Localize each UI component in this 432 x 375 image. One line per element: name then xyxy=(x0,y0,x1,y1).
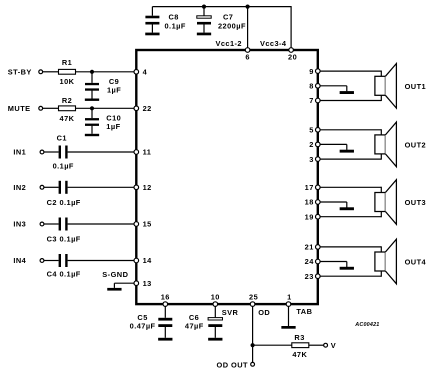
svg-text:47K: 47K xyxy=(292,350,307,359)
ground C8 xyxy=(145,33,159,36)
svg-text:AC00421: AC00421 xyxy=(354,322,379,328)
svg-text:6: 6 xyxy=(245,52,250,61)
pin 2 xyxy=(309,140,320,149)
resistor R1 xyxy=(59,69,76,74)
pin 7 xyxy=(309,96,320,105)
wire pin 17 to speaker top xyxy=(318,187,382,193)
ground C10 xyxy=(85,134,99,136)
wire ST-BY to R1 xyxy=(43,71,59,73)
wire IN4 to C4 xyxy=(44,260,59,262)
node IN1 terminal xyxy=(13,148,43,157)
svg-text:V: V xyxy=(331,341,336,350)
svg-text:C2 0.1µF: C2 0.1µF xyxy=(47,198,81,207)
pin 25 OD xyxy=(249,293,270,318)
svg-text:OUT1: OUT1 xyxy=(405,82,427,91)
svg-text:47µF: 47µF xyxy=(185,321,204,330)
svg-text:9: 9 xyxy=(309,67,314,76)
wire pin 25 to OD junction xyxy=(252,304,254,345)
wire IN1 to C1 xyxy=(44,151,59,153)
svg-text:C8: C8 xyxy=(169,13,179,22)
wire R1 to pin 4 xyxy=(76,71,137,73)
svg-text:0.1µF: 0.1µF xyxy=(165,22,186,31)
value C1 0.1µF xyxy=(53,162,74,171)
pin 9 xyxy=(309,67,320,76)
svg-text:22: 22 xyxy=(143,104,152,113)
svg-text:ST-BY: ST-BY xyxy=(8,67,32,76)
wire C4 to pin 14 xyxy=(68,260,137,262)
label R1 xyxy=(62,58,72,67)
ground speaker OUT4 xyxy=(340,267,354,270)
svg-text:TAB: TAB xyxy=(296,307,312,316)
svg-text:4: 4 xyxy=(143,67,148,76)
resistor R3 xyxy=(292,343,309,348)
svg-text:R2: R2 xyxy=(62,96,72,105)
ground C6 xyxy=(208,338,222,341)
svg-text:14: 14 xyxy=(143,256,153,265)
svg-text:16: 16 xyxy=(161,293,170,302)
svg-text:10: 10 xyxy=(211,293,220,302)
ground speaker OUT2 xyxy=(340,150,354,153)
pin 20 xyxy=(288,48,297,62)
pin 23 xyxy=(305,272,320,281)
net label Vcc3-4 xyxy=(260,39,287,48)
pin 15 xyxy=(134,220,152,229)
wire R3 to V terminal xyxy=(309,344,324,346)
wire pin 5 to speaker top xyxy=(318,129,382,135)
op-amp IC U1 (quad power amplifier) xyxy=(136,50,317,304)
node MUTE terminal xyxy=(8,104,43,113)
svg-text:7: 7 xyxy=(309,96,314,105)
wire pin 3 to speaker bottom xyxy=(318,154,382,160)
svg-text:SVR: SVR xyxy=(222,308,239,317)
junction dot C7 top xyxy=(202,5,206,9)
node IN3 terminal xyxy=(13,220,43,229)
svg-text:17: 17 xyxy=(305,183,314,192)
pin 8 xyxy=(309,82,320,91)
svg-text:13: 13 xyxy=(143,279,152,288)
capacitor C10 xyxy=(85,108,99,134)
label C9 xyxy=(109,77,119,86)
node V terminal xyxy=(324,341,336,350)
label C6 xyxy=(189,313,199,322)
wire pin 1 to ground xyxy=(288,304,290,326)
wire IN3 to C3 xyxy=(44,223,59,225)
pin 1 TAB xyxy=(286,293,312,317)
wire pin 23 to speaker bottom xyxy=(318,271,382,277)
svg-text:3: 3 xyxy=(309,155,314,164)
pin 18 xyxy=(305,198,320,207)
label C10 xyxy=(106,114,121,123)
pin 21 xyxy=(305,243,320,252)
ground TAB xyxy=(281,326,295,329)
value C3 0.1µF xyxy=(47,235,81,244)
wire pin 13 to signal ground xyxy=(114,283,136,288)
wire Vcc1-2 drop to pin 6 xyxy=(247,7,249,50)
wire C2 to pin 12 xyxy=(68,186,137,188)
ground S-GND xyxy=(107,288,121,291)
value C8 0.1µF xyxy=(165,22,186,31)
svg-text:5: 5 xyxy=(309,126,314,135)
svg-text:MUTE: MUTE xyxy=(8,104,31,113)
label OUT1 xyxy=(405,82,427,91)
capacitor C7 (electrolytic) xyxy=(197,7,211,33)
pin 13 xyxy=(134,279,152,288)
wire pin 9 to speaker top xyxy=(318,71,382,77)
ground speaker OUT3 xyxy=(340,207,354,210)
node IN2 terminal xyxy=(13,183,43,192)
svg-text:2: 2 xyxy=(309,140,314,149)
junction dot OD xyxy=(251,343,255,347)
value C6 47µF xyxy=(185,321,204,330)
svg-text:0.1µF: 0.1µF xyxy=(53,162,74,171)
value C2 0.1µF xyxy=(47,198,81,207)
value C10 1µF xyxy=(106,122,120,131)
wire top supply rail xyxy=(152,6,291,8)
svg-text:12: 12 xyxy=(143,183,152,192)
speaker OUT4 xyxy=(375,239,397,284)
pin 17 xyxy=(305,183,320,192)
pin 6 xyxy=(245,48,250,62)
pin 12 xyxy=(134,183,152,192)
value C9 1µF xyxy=(107,86,121,95)
wire IN2 to C2 xyxy=(44,186,59,188)
speaker OUT3 xyxy=(375,180,397,225)
value C7 2200µF xyxy=(218,22,246,31)
label C8 xyxy=(169,13,179,22)
pin 10 SVR xyxy=(211,293,239,318)
svg-text:25: 25 xyxy=(249,293,258,302)
value R2 47K xyxy=(60,114,75,123)
svg-text:R3: R3 xyxy=(294,333,304,342)
pin 14 xyxy=(134,256,152,265)
node IN4 terminal xyxy=(13,256,43,265)
figure code AC00421 xyxy=(354,322,379,328)
ground C9 xyxy=(85,99,99,101)
junction dot ST-BY/C9 xyxy=(90,70,94,74)
svg-text:1µF: 1µF xyxy=(106,122,120,131)
svg-text:OUT4: OUT4 xyxy=(405,258,427,267)
capacitor C9 xyxy=(85,72,99,99)
svg-text:S-GND: S-GND xyxy=(102,270,128,279)
svg-text:C1: C1 xyxy=(57,134,67,143)
pin 11 xyxy=(134,148,151,157)
svg-text:OD OUT: OD OUT xyxy=(217,360,248,369)
svg-text:2200µF: 2200µF xyxy=(218,22,246,31)
svg-text:23: 23 xyxy=(305,272,314,281)
wire pin 19 to speaker bottom xyxy=(318,212,382,218)
pin 16 xyxy=(161,293,170,307)
wire pin 8 to ground xyxy=(318,86,347,92)
wire pin 2 to ground xyxy=(318,144,347,150)
svg-text:20: 20 xyxy=(288,52,297,61)
value C5 0.47µF xyxy=(130,321,156,330)
svg-text:OUT3: OUT3 xyxy=(405,198,427,207)
speaker OUT1 xyxy=(375,64,397,109)
wire C1 to pin 11 xyxy=(68,151,137,153)
pin 19 xyxy=(305,212,320,221)
capacitor C5 xyxy=(158,304,172,338)
svg-text:R1: R1 xyxy=(62,58,72,67)
svg-text:C7: C7 xyxy=(223,13,233,22)
node ST-BY terminal xyxy=(8,67,43,76)
capacitor C4 xyxy=(59,254,68,267)
value C4 0.1µF xyxy=(47,270,81,279)
wire pin 24 to ground xyxy=(318,262,347,268)
wire pin 7 to speaker bottom xyxy=(318,95,382,101)
wire pin 18 to ground xyxy=(318,202,347,208)
svg-text:IN2: IN2 xyxy=(13,183,26,192)
resistor R2 xyxy=(59,106,76,111)
pin 4 xyxy=(134,67,148,76)
label R2 xyxy=(62,96,72,105)
svg-text:C3 0.1µF: C3 0.1µF xyxy=(47,235,81,244)
svg-text:11: 11 xyxy=(143,148,152,157)
label R3 xyxy=(294,333,304,342)
svg-text:OD: OD xyxy=(258,308,270,317)
speaker OUT2 xyxy=(375,122,397,167)
svg-text:18: 18 xyxy=(305,198,314,207)
label OUT4 xyxy=(405,258,427,267)
ground C5 xyxy=(158,338,172,341)
svg-text:8: 8 xyxy=(309,82,314,91)
value R3 47K xyxy=(292,350,307,359)
svg-text:IN3: IN3 xyxy=(13,220,26,229)
label OUT2 xyxy=(405,141,427,150)
junction dot pin-6 branch xyxy=(246,5,250,9)
capacitor C2 xyxy=(59,181,68,194)
svg-text:10K: 10K xyxy=(60,77,75,86)
pin 5 xyxy=(309,126,320,135)
pin 24 xyxy=(305,257,320,266)
wire pin 21 to speaker top xyxy=(318,246,382,252)
capacitor C1 xyxy=(59,146,68,159)
capacitor C6 (electrolytic) xyxy=(208,304,222,338)
net label S-GND xyxy=(102,270,128,279)
svg-text:IN4: IN4 xyxy=(13,256,26,265)
node OD OUT terminal xyxy=(217,360,255,369)
wire R2 to pin 22 xyxy=(76,107,137,109)
svg-text:OUT2: OUT2 xyxy=(405,141,427,150)
wire MUTE to R2 xyxy=(43,107,59,109)
net label Vcc1-2 xyxy=(215,39,242,48)
junction dot MUTE/C10 xyxy=(90,106,94,110)
svg-text:0.47µF: 0.47µF xyxy=(130,321,156,330)
ground C7 xyxy=(197,33,211,36)
capacitor C8 xyxy=(145,7,159,33)
value R1 10K xyxy=(60,77,75,86)
svg-text:15: 15 xyxy=(143,220,152,229)
label C7 xyxy=(223,13,233,22)
pin 3 xyxy=(309,155,320,164)
svg-text:IN1: IN1 xyxy=(13,148,26,157)
label C1 xyxy=(57,134,67,143)
wire OD junction to OD OUT xyxy=(252,345,254,362)
svg-text:21: 21 xyxy=(305,243,314,252)
pin 22 xyxy=(134,104,152,113)
label OUT3 xyxy=(405,198,427,207)
capacitor C3 xyxy=(59,218,68,231)
svg-text:1: 1 xyxy=(287,293,292,302)
wire OD junction to R3 xyxy=(253,344,292,346)
svg-text:19: 19 xyxy=(305,212,314,221)
svg-text:C4 0.1µF: C4 0.1µF xyxy=(47,270,81,279)
svg-text:Vcc3-4: Vcc3-4 xyxy=(260,39,287,48)
ground speaker OUT1 xyxy=(340,91,354,94)
svg-text:47K: 47K xyxy=(60,114,75,123)
svg-text:Vcc1-2: Vcc1-2 xyxy=(215,39,242,48)
wire Vcc3-4 drop to pin 20 xyxy=(290,6,292,50)
svg-text:24: 24 xyxy=(305,257,315,266)
label C5 xyxy=(137,313,147,322)
svg-text:1µF: 1µF xyxy=(107,86,121,95)
wire C3 to pin 15 xyxy=(68,223,137,225)
